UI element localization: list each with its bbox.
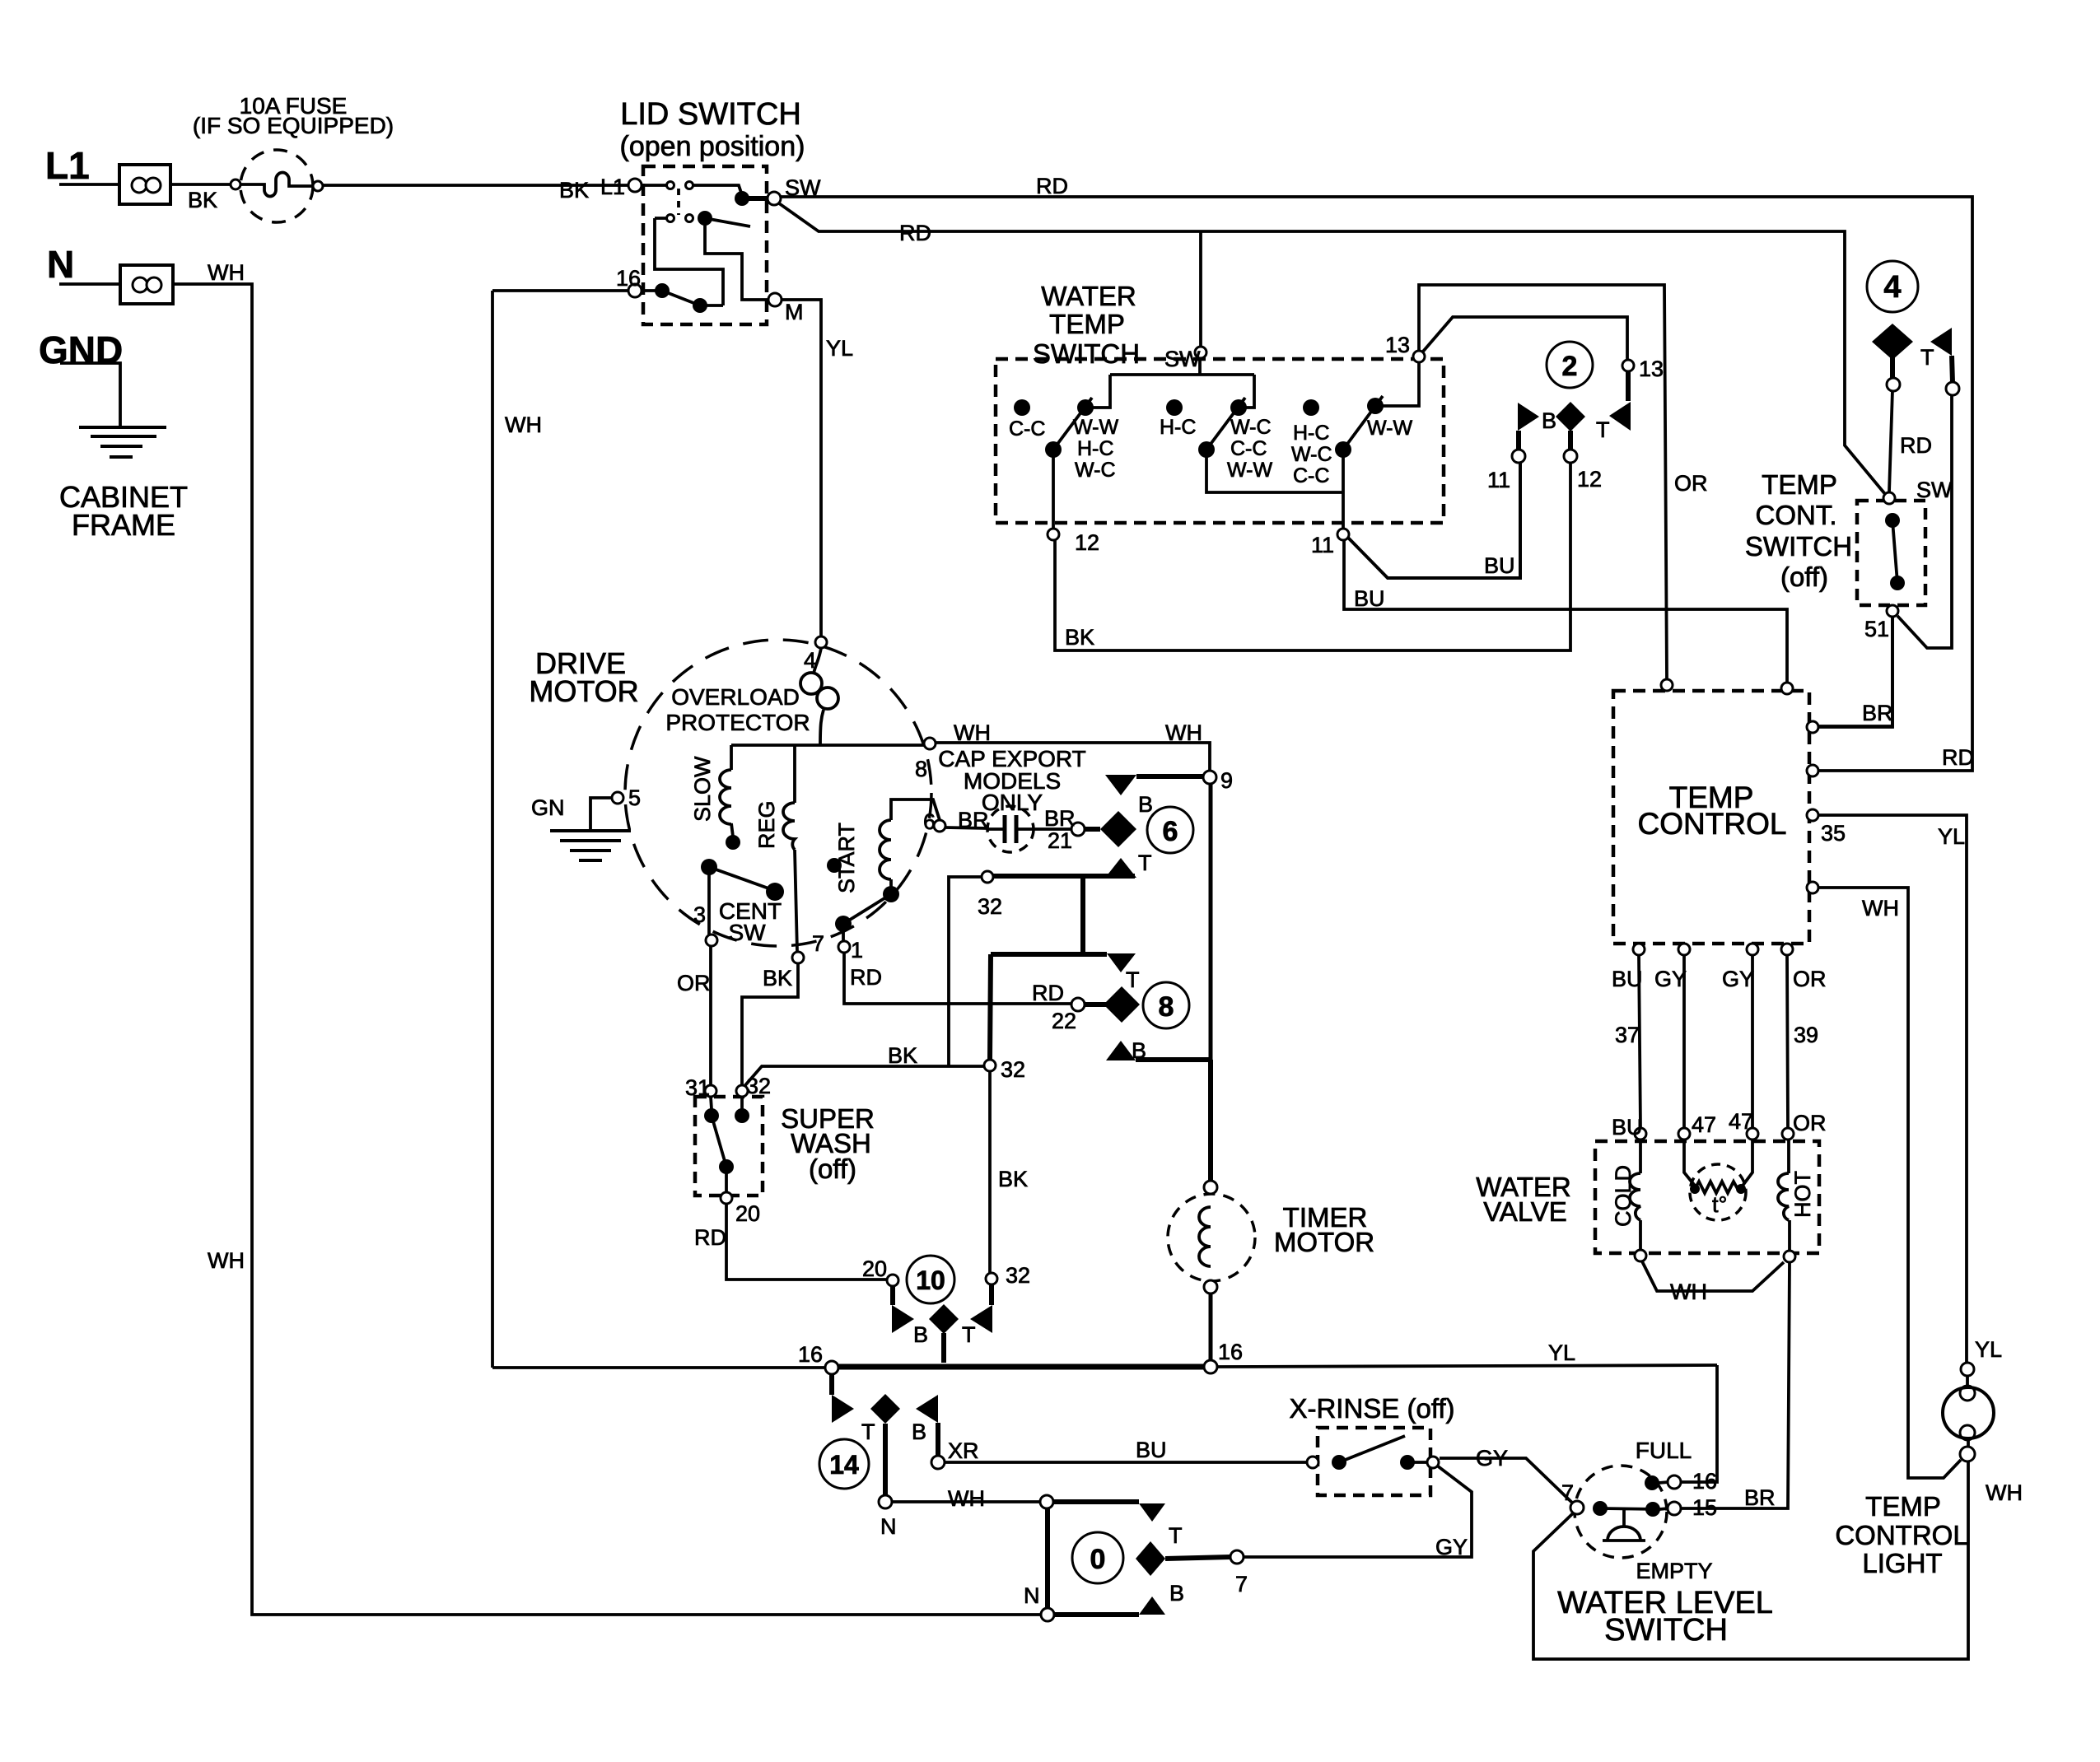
svg-text:CONT.: CONT. [1756,500,1837,530]
svg-text:TEMP: TEMP [1049,309,1125,339]
svg-text:B: B [1138,792,1153,817]
svg-text:16: 16 [798,1342,823,1367]
svg-text:B: B [1132,1038,1146,1063]
svg-text:BU: BU [1354,586,1385,611]
svg-text:20: 20 [862,1256,887,1281]
svg-text:(off): (off) [809,1154,856,1184]
svg-text:12: 12 [1577,467,1602,492]
svg-text:32: 32 [978,894,1002,919]
svg-text:BU: BU [1484,553,1515,578]
svg-text:L1: L1 [45,144,90,187]
svg-text:XR: XR [948,1438,979,1463]
svg-text:H-C: H-C [1077,437,1113,460]
svg-text:OR: OR [1793,967,1827,991]
svg-text:BU: BU [1612,1115,1643,1140]
svg-text:L1: L1 [600,175,625,199]
svg-text:13: 13 [1385,333,1410,357]
svg-text:BR: BR [958,808,989,832]
svg-text:T: T [1138,851,1152,875]
svg-text:W-C: W-C [1075,459,1116,482]
svg-text:MOTOR: MOTOR [1274,1227,1374,1257]
svg-text:HOT: HOT [1790,1171,1815,1218]
svg-text:47: 47 [1692,1112,1716,1137]
svg-text:9: 9 [1220,768,1233,793]
svg-text:4: 4 [804,648,816,673]
svg-text:12: 12 [1075,530,1099,555]
svg-text:OR: OR [1793,1111,1827,1135]
svg-text:8: 8 [915,757,927,781]
svg-text:13: 13 [1639,357,1664,381]
svg-text:C-C: C-C [1009,417,1045,440]
svg-text:CONTROL: CONTROL [1638,807,1787,841]
svg-text:11: 11 [1311,533,1334,557]
svg-text:N: N [880,1514,897,1539]
svg-text:1: 1 [851,938,863,963]
svg-text:16: 16 [616,266,641,291]
svg-text:WH: WH [208,260,245,285]
svg-text:6: 6 [1163,816,1178,847]
svg-text:16: 16 [1218,1340,1243,1364]
svg-text:BR: BR [1744,1485,1776,1510]
svg-text:16: 16 [1692,1469,1717,1494]
svg-text:B: B [1542,408,1556,433]
svg-text:2: 2 [1562,351,1578,382]
svg-text:GY: GY [1476,1446,1508,1471]
svg-text:YL: YL [1975,1337,2002,1362]
svg-text:N: N [1024,1583,1040,1608]
svg-text:SW: SW [785,175,821,200]
svg-text:OR: OR [677,971,711,995]
svg-text:39: 39 [1794,1023,1818,1047]
svg-text:14: 14 [829,1450,859,1480]
svg-text:W-W: W-W [1073,416,1118,439]
svg-text:7: 7 [812,931,824,956]
svg-text:BU: BU [1612,967,1643,991]
svg-text:OR: OR [1674,471,1708,496]
svg-text:W-C: W-C [1230,416,1272,439]
svg-text:GN: GN [531,795,565,820]
svg-text:SLOW: SLOW [690,756,715,822]
svg-text:COLD: COLD [1611,1165,1636,1227]
svg-text:SW: SW [1916,478,1953,502]
svg-text:BU: BU [1136,1438,1167,1462]
svg-text:10: 10 [916,1266,945,1295]
svg-text:T: T [1126,967,1140,992]
svg-text:WH: WH [505,413,542,437]
svg-text:WH: WH [1670,1280,1707,1304]
svg-text:BK: BK [888,1043,917,1068]
svg-text:BK: BK [763,966,792,991]
svg-text:RD: RD [1036,174,1068,198]
svg-text:LIGHT: LIGHT [1862,1548,1942,1578]
svg-text:FULL: FULL [1636,1438,1692,1463]
svg-text:51: 51 [1864,617,1889,641]
svg-text:EMPTY: EMPTY [1636,1559,1712,1583]
svg-text:GY: GY [1654,967,1687,991]
svg-text:6: 6 [923,809,936,834]
svg-text:WH: WH [1862,896,1899,921]
svg-text:RD: RD [1900,433,1932,458]
svg-text:M: M [785,300,804,324]
svg-text:W-C: W-C [1291,443,1332,466]
svg-text:ONLY: ONLY [982,790,1043,815]
svg-text:t°: t° [1712,1192,1727,1217]
svg-text:BR: BR [1862,701,1893,725]
svg-text:W-W: W-W [1227,459,1272,482]
svg-text:WATER: WATER [1041,281,1136,311]
svg-text:WH: WH [1986,1480,2023,1505]
svg-text:GY: GY [1435,1535,1468,1559]
svg-text:4: 4 [1883,270,1901,305]
svg-text:YL: YL [1938,824,1965,849]
svg-text:22: 22 [1052,1009,1076,1033]
svg-text:SWITCH: SWITCH [1745,531,1852,562]
svg-text:RD: RD [850,965,882,990]
svg-text:(IF SO EQUIPPED): (IF SO EQUIPPED) [193,113,394,138]
svg-text:OVERLOAD: OVERLOAD [671,684,800,710]
svg-text:VALVE: VALVE [1483,1196,1567,1227]
svg-text:T: T [1920,345,1934,370]
svg-text:GND: GND [39,329,123,371]
svg-text:32: 32 [1006,1263,1030,1288]
svg-text:B: B [1169,1581,1184,1606]
svg-text:5: 5 [628,785,641,810]
svg-text:32: 32 [746,1074,771,1098]
svg-text:RD: RD [899,221,931,245]
svg-text:31: 31 [685,1075,710,1100]
svg-text:C-C: C-C [1293,464,1329,487]
svg-text:WH: WH [1165,720,1202,745]
svg-text:H-C: H-C [1293,422,1329,445]
svg-text:BK: BK [1065,625,1094,650]
svg-text:W-W: W-W [1367,417,1412,440]
svg-text:32: 32 [1001,1057,1025,1082]
svg-text:B: B [912,1419,926,1444]
svg-text:WH: WH [948,1486,985,1511]
svg-text:BK: BK [188,188,217,212]
svg-text:X-RINSE (off): X-RINSE (off) [1289,1393,1454,1424]
svg-text:T: T [962,1322,976,1347]
svg-text:RD: RD [1942,745,1974,770]
svg-text:RD: RD [694,1225,726,1250]
svg-text:7: 7 [1561,1480,1574,1505]
svg-text:YL: YL [826,336,853,361]
svg-text:21: 21 [1048,828,1072,853]
svg-text:7: 7 [1235,1572,1248,1597]
svg-text:20: 20 [735,1201,760,1226]
svg-text:TEMP: TEMP [1865,1491,1941,1522]
svg-text:BK: BK [559,178,589,203]
svg-text:37: 37 [1615,1023,1640,1047]
svg-text:TEMP: TEMP [1762,469,1837,500]
svg-text:GY: GY [1722,967,1754,991]
svg-text:CONTROL: CONTROL [1835,1520,1967,1550]
svg-text:SWITCH: SWITCH [1033,338,1140,369]
svg-text:11: 11 [1487,468,1510,492]
svg-text:C-C: C-C [1230,437,1267,460]
svg-text:3: 3 [693,902,706,927]
svg-text:H-C: H-C [1160,416,1196,439]
svg-text:47: 47 [1729,1109,1753,1134]
svg-text:T: T [861,1419,875,1444]
svg-text:N: N [47,243,74,286]
svg-text:BR: BR [1044,806,1076,831]
svg-text:(off): (off) [1780,562,1828,592]
svg-text:B: B [913,1322,928,1347]
svg-text:YL: YL [1548,1340,1575,1365]
svg-text:8: 8 [1159,991,1174,1023]
svg-text:0: 0 [1090,1544,1106,1575]
svg-text:SW: SW [728,920,766,945]
svg-text:SW: SW [1164,347,1201,371]
svg-text:BK: BK [998,1167,1028,1191]
svg-text:MOTOR: MOTOR [529,674,638,708]
svg-text:SWITCH: SWITCH [1604,1613,1728,1648]
svg-text:T: T [1169,1523,1183,1548]
svg-text:(open position): (open position) [620,131,805,162]
svg-text:15: 15 [1692,1495,1717,1520]
svg-text:T: T [1596,417,1610,442]
svg-text:WH: WH [208,1248,245,1273]
svg-text:RD: RD [1032,981,1064,1005]
svg-text:FRAME: FRAME [72,508,175,542]
svg-text:PROTECTOR: PROTECTOR [665,710,810,735]
svg-text:WH: WH [954,720,991,745]
svg-text:LID SWITCH: LID SWITCH [620,97,801,132]
svg-text:REG: REG [754,800,779,849]
svg-text:35: 35 [1821,821,1846,846]
svg-text:START: START [834,823,859,893]
